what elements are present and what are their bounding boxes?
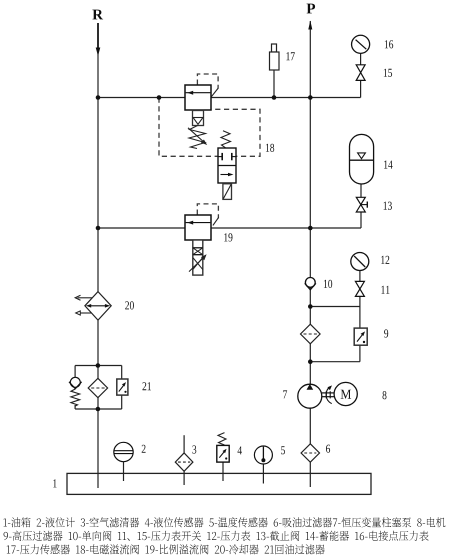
return filter 21 bypass check valve xyxy=(70,377,80,387)
pressure gauge 12 xyxy=(351,253,369,271)
wire filter21 top link xyxy=(75,365,122,367)
valve 18 adjust arrow xyxy=(188,128,205,143)
filter 21 clogging indicator xyxy=(117,379,128,395)
valve 18 pilot diagonal xyxy=(211,88,218,97)
pressure sensor 17 xyxy=(272,44,277,52)
return filter 21 bypass spring xyxy=(71,389,80,406)
temperature sensor 5 xyxy=(262,460,264,484)
wire filter21 bottom link xyxy=(75,408,122,410)
junction node filter9 top xyxy=(308,304,313,309)
shaft rotation arrow xyxy=(326,387,332,404)
label 6 xyxy=(326,445,330,453)
label 12 xyxy=(381,256,389,264)
junction node pilot tap xyxy=(157,95,162,100)
junction node line2-R xyxy=(96,226,101,231)
motor 8 letter M xyxy=(341,390,351,399)
valve 19 proportional arrow xyxy=(189,257,204,271)
label 3 xyxy=(192,445,196,453)
cooler 20 xyxy=(85,292,111,321)
pilot solenoid coil xyxy=(223,184,232,200)
wire filter9 top link xyxy=(310,306,360,308)
label 11 xyxy=(381,286,389,294)
air filter 3 xyxy=(183,435,185,485)
valve 19 pilot dashed box xyxy=(197,204,218,219)
suction filter 6 xyxy=(301,444,319,462)
pilot solenoid valve of 18 xyxy=(218,148,236,183)
wire line2 horizontal xyxy=(98,227,361,229)
caption line 2 xyxy=(4,531,429,541)
caption line 1 xyxy=(3,517,445,527)
junction node filter21 bottom xyxy=(96,407,101,412)
valve 18 poppet box xyxy=(193,111,204,126)
caption line 3 xyxy=(7,544,325,554)
high pressure filter 9 element xyxy=(301,324,321,344)
pump-motor shaft xyxy=(322,392,334,394)
electric contact pressure gauge 16 xyxy=(352,35,370,53)
label 8 xyxy=(383,391,387,399)
valve 19 pilot diagonal xyxy=(213,217,219,225)
junction node line1-R xyxy=(96,95,101,100)
shutoff valve 13 xyxy=(356,197,365,204)
wire check valve 21 lower stub xyxy=(74,405,76,409)
valve 18 spring xyxy=(189,126,206,149)
label 19 xyxy=(224,233,232,241)
label 16 xyxy=(385,40,393,48)
wire R line vertical xyxy=(97,23,99,488)
label 15 xyxy=(384,69,392,77)
pilot solenoid valve spring xyxy=(221,131,231,148)
label 5 xyxy=(281,446,285,454)
filter 9 clogging indicator xyxy=(354,328,367,345)
label 13 xyxy=(384,202,392,210)
level sensor 4 xyxy=(222,462,224,481)
pump 7 xyxy=(298,384,322,408)
level gauge 2 xyxy=(123,460,125,481)
label 7 xyxy=(283,390,287,398)
junction node sensor17 xyxy=(272,95,277,100)
wire P arrow up xyxy=(308,21,312,30)
wire gauge16 branch xyxy=(360,44,362,98)
label 4 xyxy=(238,446,242,454)
check valve 10 xyxy=(305,278,315,288)
junction node line1-P xyxy=(308,95,313,100)
return filter 21 element xyxy=(88,378,107,397)
junction node filter9 bottom xyxy=(308,359,313,364)
cooler coolant arrow upper xyxy=(78,297,93,299)
valve 18 pilot dashed box xyxy=(197,74,218,89)
wire P line vertical xyxy=(309,21,311,487)
junction node filter21 top xyxy=(96,363,101,368)
accumulator 14 xyxy=(350,134,374,184)
wire sensor17 branch xyxy=(273,60,275,98)
wire accumulator branch xyxy=(360,160,362,228)
label 17 xyxy=(286,52,294,60)
node R label xyxy=(92,10,103,20)
oil tank 1 xyxy=(67,473,371,494)
label 18 xyxy=(266,144,274,152)
label 9 xyxy=(384,329,388,337)
wire indicator21 lower stub xyxy=(121,394,123,409)
motor 8 xyxy=(334,382,357,405)
node P label xyxy=(307,4,316,14)
junction node line2-P xyxy=(308,226,313,231)
label 20 xyxy=(125,301,134,309)
wire pilot vent dashed path of valve 18 xyxy=(159,98,260,157)
label 21 xyxy=(143,382,152,390)
cooler coolant arrow lower xyxy=(80,312,92,314)
wire R arrow down xyxy=(97,23,99,50)
wire indicator21 upper stub xyxy=(121,366,123,381)
label 1 xyxy=(53,479,56,487)
wire check valve 21 upper stub xyxy=(74,366,76,379)
label 2 xyxy=(142,445,146,453)
wire filter9 bottom link xyxy=(310,361,360,363)
wire gauge12 branch xyxy=(359,261,361,362)
proportional relief valve 19 body xyxy=(185,215,211,240)
wire line1 horizontal xyxy=(98,97,361,99)
relief valve 18 body xyxy=(185,85,211,110)
pressure gauge switch 15 xyxy=(356,65,365,73)
label 10 xyxy=(324,280,332,288)
label 14 xyxy=(384,161,393,169)
pressure gauge switch 11 xyxy=(355,281,364,289)
valve 19 proportional solenoid column xyxy=(193,240,203,275)
